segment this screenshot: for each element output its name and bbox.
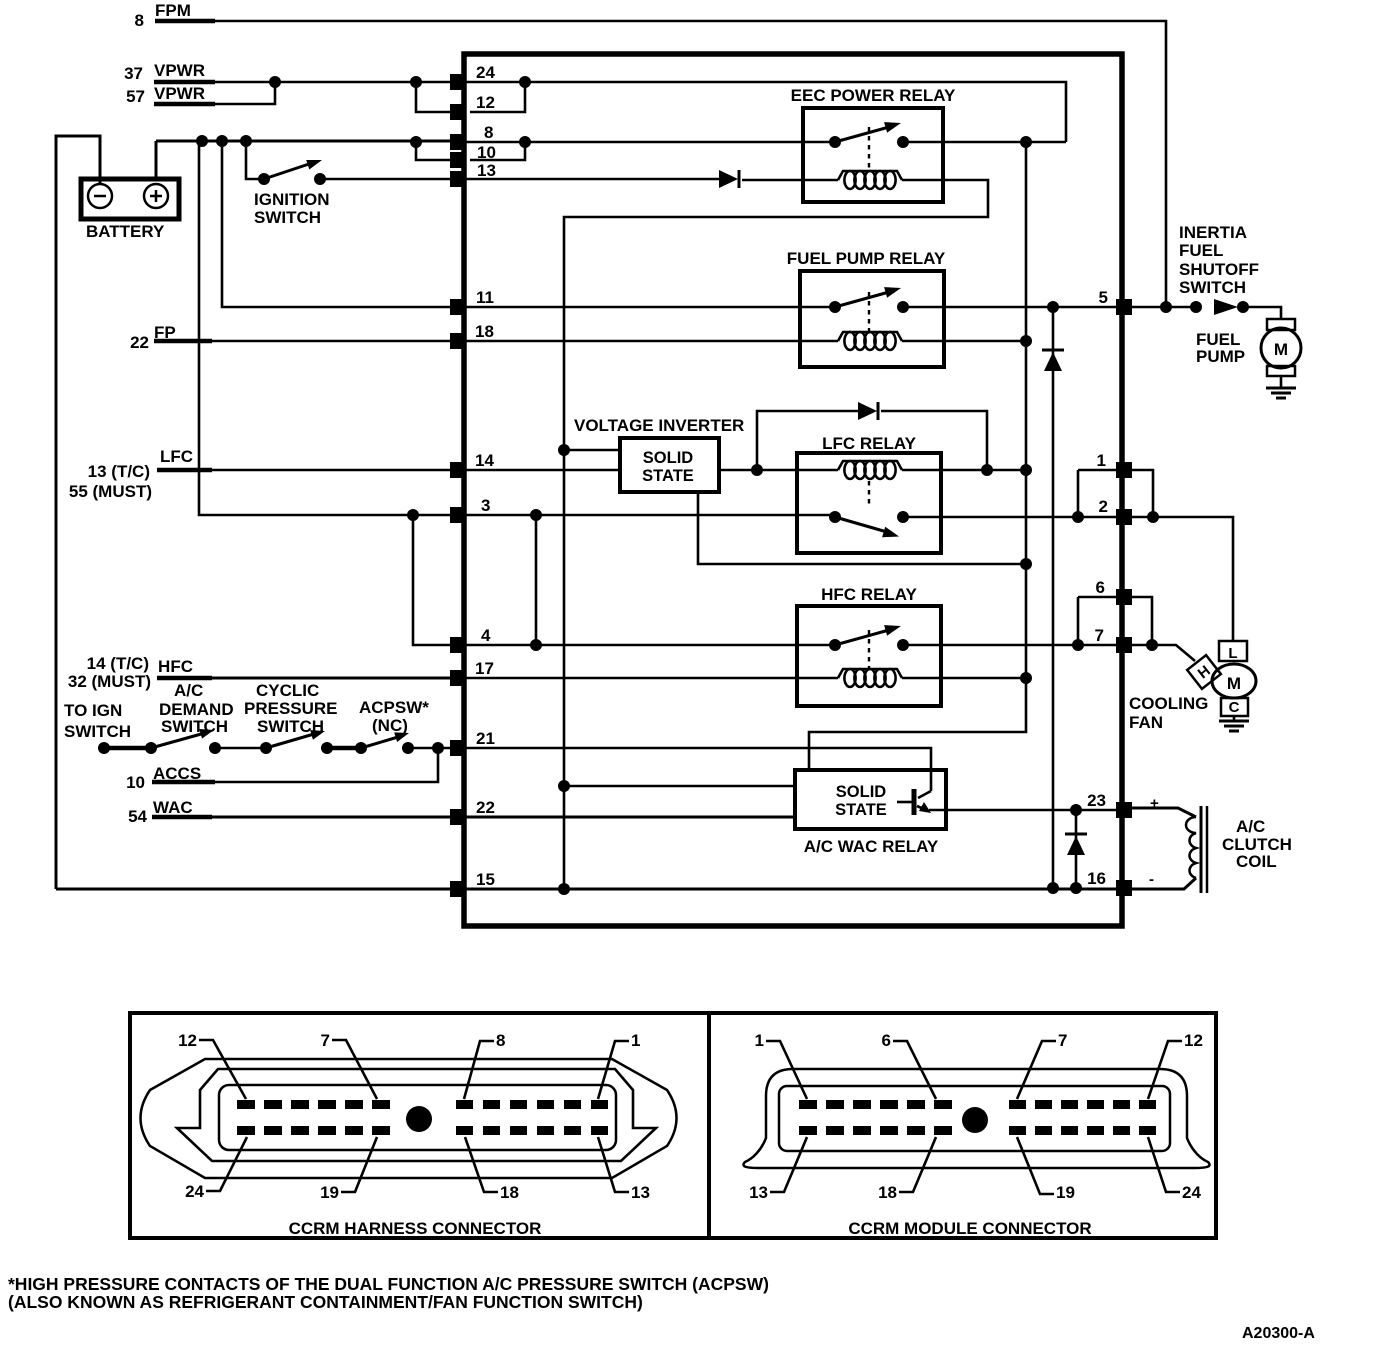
svg-text:19: 19	[1056, 1183, 1075, 1202]
svg-text:8: 8	[484, 123, 493, 142]
svg-text:18: 18	[878, 1183, 897, 1202]
svg-text:SOLID: SOLID	[643, 449, 694, 467]
svg-text:18: 18	[500, 1183, 519, 1202]
svg-text:TO IGN: TO IGN	[64, 701, 122, 720]
svg-text:(ALSO KNOWN AS REFRIGERANT CON: (ALSO KNOWN AS REFRIGERANT CONTAINMENT/F…	[8, 1292, 643, 1312]
svg-text:19: 19	[320, 1183, 339, 1202]
svg-text:10: 10	[126, 773, 145, 792]
svg-text:7: 7	[321, 1031, 330, 1050]
svg-text:6: 6	[882, 1031, 891, 1050]
svg-text:2: 2	[1099, 497, 1108, 516]
svg-text:12: 12	[1184, 1031, 1203, 1050]
svg-text:37: 37	[124, 64, 143, 83]
svg-text:M: M	[1274, 340, 1288, 359]
svg-text:PUMP: PUMP	[1196, 347, 1245, 366]
svg-text:HFC RELAY: HFC RELAY	[821, 585, 917, 604]
svg-text:6: 6	[1096, 578, 1105, 597]
svg-text:ACCS: ACCS	[153, 764, 201, 783]
svg-text:SHUTOFF: SHUTOFF	[1179, 260, 1259, 279]
svg-text:57: 57	[126, 87, 145, 106]
svg-text:SWITCH: SWITCH	[64, 722, 131, 741]
svg-text:24: 24	[1182, 1183, 1201, 1202]
svg-text:13: 13	[477, 161, 496, 180]
svg-text:PRESSURE: PRESSURE	[244, 699, 338, 718]
svg-text:12: 12	[476, 93, 495, 112]
svg-text:14 (T/C): 14 (T/C)	[87, 654, 149, 673]
svg-text:4: 4	[481, 626, 491, 645]
svg-text:54: 54	[128, 807, 147, 826]
svg-text:13: 13	[749, 1183, 768, 1202]
svg-text:M: M	[1227, 674, 1241, 693]
svg-text:CYCLIC: CYCLIC	[256, 681, 319, 700]
svg-text:16: 16	[1087, 869, 1106, 888]
svg-text:IGNITION: IGNITION	[254, 190, 330, 209]
svg-text:21: 21	[476, 729, 495, 748]
svg-text:STATE: STATE	[642, 467, 694, 485]
svg-text:7: 7	[1095, 626, 1104, 645]
svg-text:HFC: HFC	[158, 657, 193, 676]
svg-text:STATE: STATE	[835, 801, 887, 819]
svg-text:18: 18	[475, 322, 494, 341]
svg-text:1: 1	[1097, 451, 1106, 470]
svg-text:8: 8	[496, 1031, 505, 1050]
svg-text:INERTIA: INERTIA	[1179, 223, 1247, 242]
svg-text:SOLID: SOLID	[836, 783, 887, 801]
svg-text:A/C WAC RELAY: A/C WAC RELAY	[804, 837, 939, 856]
svg-text:L: L	[1228, 645, 1237, 662]
svg-text:EEC POWER RELAY: EEC POWER RELAY	[791, 86, 956, 105]
svg-text:C: C	[1229, 699, 1240, 716]
svg-text:7: 7	[1058, 1031, 1067, 1050]
svg-text:A/C: A/C	[1236, 817, 1265, 836]
svg-text:1: 1	[755, 1031, 764, 1050]
svg-text:SWITCH: SWITCH	[254, 208, 321, 227]
svg-text:5: 5	[1099, 288, 1108, 307]
svg-text:SWITCH: SWITCH	[161, 717, 228, 736]
svg-text:22: 22	[476, 798, 495, 817]
svg-text:COOLING: COOLING	[1129, 694, 1208, 713]
svg-text:24: 24	[476, 63, 495, 82]
svg-text:COIL: COIL	[1236, 852, 1277, 871]
svg-text:24: 24	[185, 1182, 204, 1201]
svg-text:FPM: FPM	[155, 1, 191, 20]
svg-text:CCRM MODULE CONNECTOR: CCRM MODULE CONNECTOR	[848, 1219, 1091, 1238]
svg-text:LFC RELAY: LFC RELAY	[822, 434, 916, 453]
svg-text:VPWR: VPWR	[154, 84, 205, 103]
svg-text:FAN: FAN	[1129, 713, 1163, 732]
svg-text:15: 15	[476, 870, 495, 889]
svg-text:*HIGH PRESSURE CONTACTS OF THE: *HIGH PRESSURE CONTACTS OF THE DUAL FUNC…	[8, 1274, 769, 1294]
svg-text:FUEL PUMP RELAY: FUEL PUMP RELAY	[787, 249, 946, 268]
svg-text:CCRM HARNESS CONNECTOR: CCRM HARNESS CONNECTOR	[289, 1219, 542, 1238]
svg-text:-: -	[1149, 871, 1154, 888]
svg-text:ACPSW*: ACPSW*	[359, 698, 429, 717]
svg-text:FUEL: FUEL	[1179, 241, 1223, 260]
svg-text:14: 14	[475, 451, 494, 470]
svg-text:23: 23	[1087, 791, 1106, 810]
svg-text:LFC: LFC	[160, 447, 193, 466]
svg-text:55 (MUST): 55 (MUST)	[69, 482, 152, 501]
svg-text:17: 17	[475, 659, 494, 678]
svg-text:13 (T/C): 13 (T/C)	[88, 462, 150, 481]
svg-text:A/C: A/C	[174, 681, 203, 700]
svg-text:1: 1	[631, 1031, 640, 1050]
svg-text:22: 22	[130, 333, 149, 352]
svg-text:32 (MUST): 32 (MUST)	[68, 672, 151, 691]
svg-text:WAC: WAC	[153, 798, 193, 817]
svg-text:A20300-A: A20300-A	[1242, 1325, 1315, 1342]
svg-text:8: 8	[135, 11, 144, 30]
svg-text:3: 3	[481, 496, 490, 515]
svg-text:13: 13	[631, 1183, 650, 1202]
svg-text:VOLTAGE INVERTER: VOLTAGE INVERTER	[574, 416, 744, 435]
svg-text:FP: FP	[154, 323, 176, 342]
svg-text:SWITCH: SWITCH	[1179, 278, 1246, 297]
svg-text:(NC): (NC)	[372, 716, 408, 735]
svg-text:BATTERY: BATTERY	[86, 222, 165, 241]
svg-text:VPWR: VPWR	[154, 61, 205, 80]
svg-text:+: +	[1150, 795, 1159, 812]
svg-text:11: 11	[476, 288, 494, 307]
svg-text:12: 12	[178, 1031, 197, 1050]
